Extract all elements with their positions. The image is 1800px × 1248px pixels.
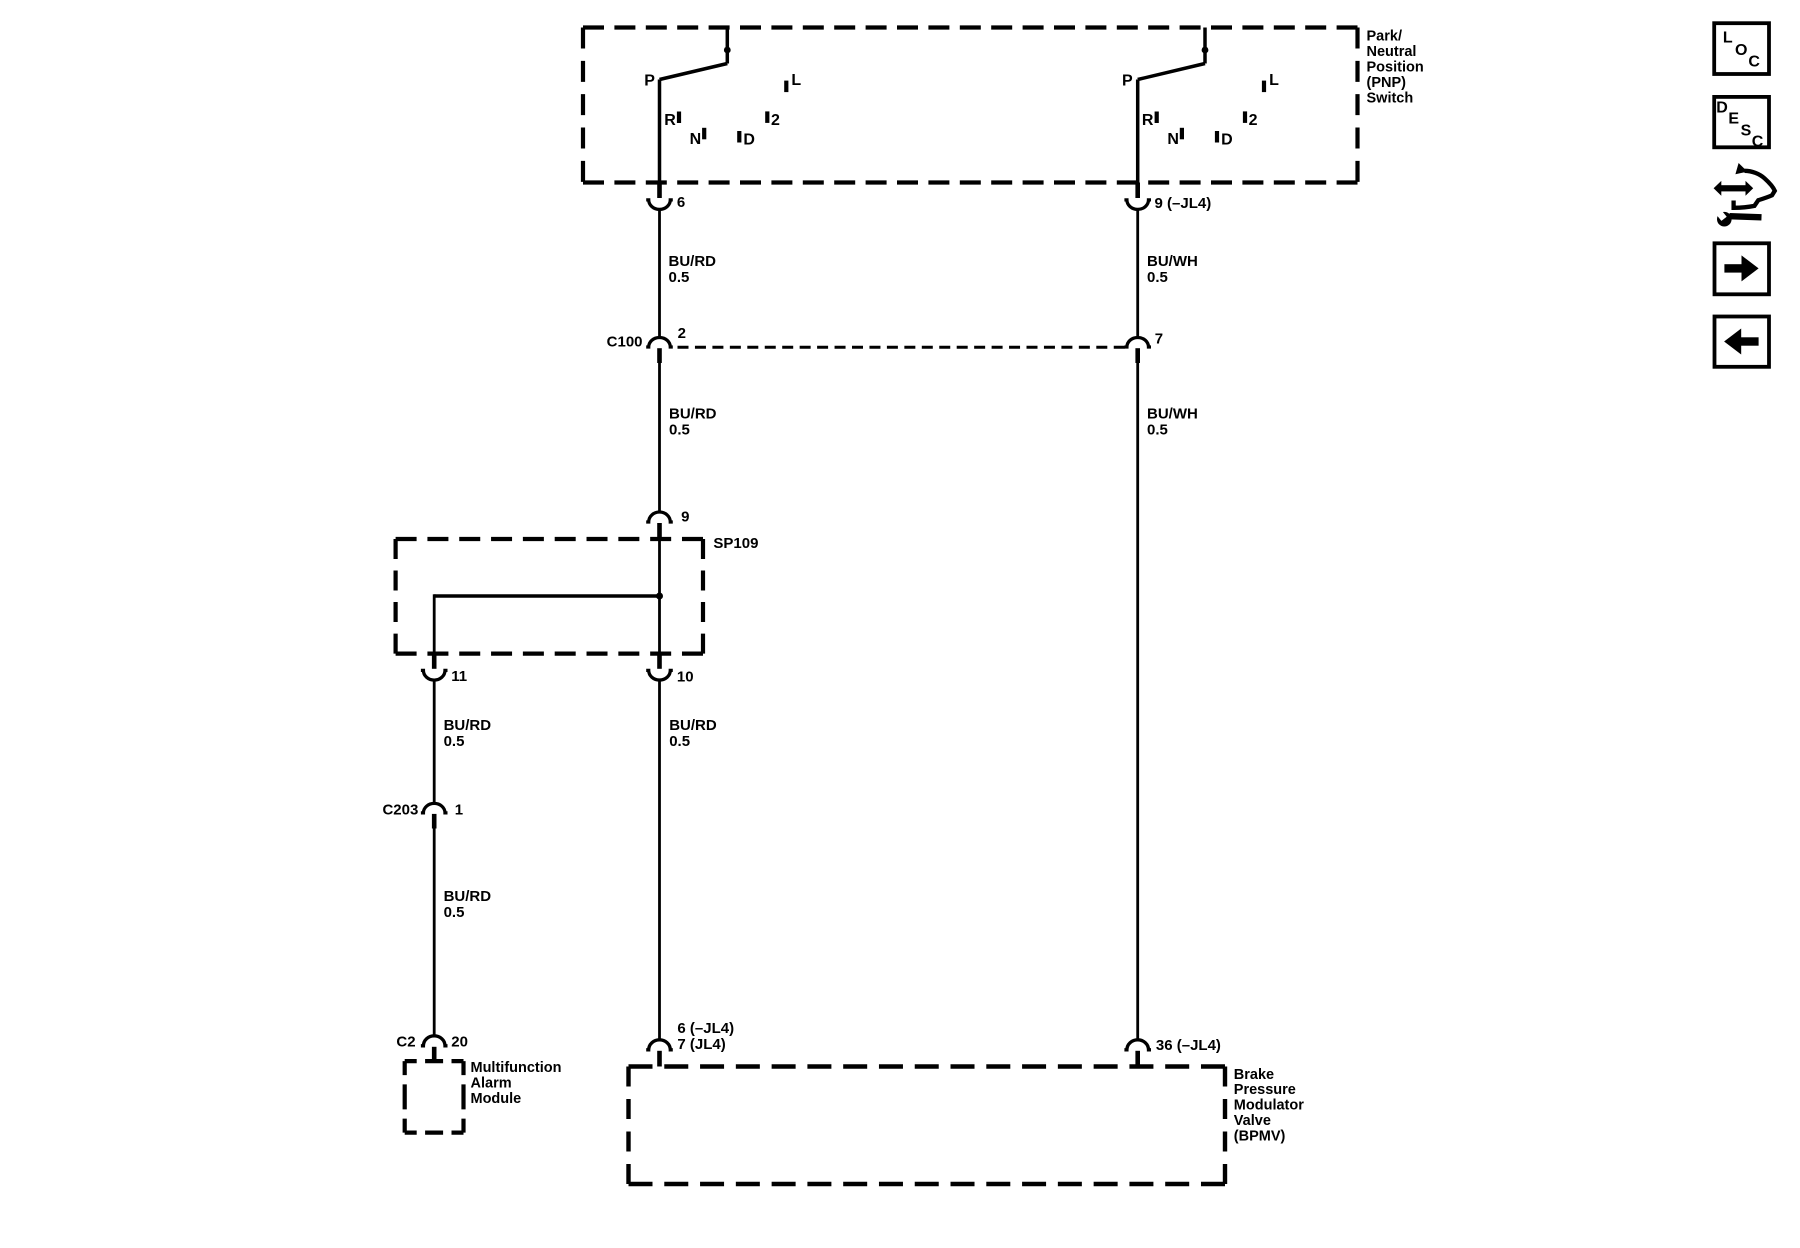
svg-text:0.5: 0.5 xyxy=(669,733,690,750)
switch S1 position labels P R N D 2 L xyxy=(644,72,801,148)
service info icon: wrench xyxy=(1712,205,1762,227)
svg-text:2: 2 xyxy=(678,325,686,342)
switch S1 contact ticks xyxy=(677,81,789,143)
wire label BU/RD 0.5 xyxy=(669,717,717,750)
svg-text:S: S xyxy=(1741,123,1752,140)
connector C203 pin xyxy=(432,814,437,829)
wire pin 10 to BPMV BU/RD xyxy=(658,680,661,1041)
switch S2 P-contact wire xyxy=(1136,80,1140,183)
svg-text:(BPMV): (BPMV) xyxy=(1234,1128,1286,1144)
switch S1 wiper arm xyxy=(660,64,728,80)
svg-text:C100: C100 xyxy=(607,334,643,351)
svg-text:L: L xyxy=(791,72,801,89)
svg-text:Position: Position xyxy=(1367,60,1424,76)
svg-text:Brake: Brake xyxy=(1234,1067,1274,1083)
connector C100 pin xyxy=(657,348,662,363)
service info icon: double arrow xyxy=(1714,181,1754,196)
svg-text:Modulator: Modulator xyxy=(1234,1098,1304,1114)
svg-text:L: L xyxy=(1723,29,1733,46)
switch S2 wiper arm xyxy=(1138,64,1205,80)
svg-text:BU/WH: BU/WH xyxy=(1147,253,1198,270)
Brake Pressure Modulator Valve (BPMV) box xyxy=(629,1067,1226,1185)
service info icon: curved band outline xyxy=(1734,171,1775,208)
wire pin 11 to C203 BU/RD xyxy=(433,680,436,804)
BPMV pin 36 pin xyxy=(1135,1051,1140,1067)
wire label BU/WH 0.5 xyxy=(1147,406,1198,439)
svg-text:0.5: 0.5 xyxy=(444,904,465,921)
wire label BU/WH 0.5 xyxy=(1147,253,1198,286)
PNP pin 6 connector cup xyxy=(646,200,673,209)
svg-text:R: R xyxy=(1142,112,1154,129)
svg-text:C203: C203 xyxy=(382,802,418,819)
switch S2 common feed wire xyxy=(1203,28,1207,64)
svg-text:Valve: Valve xyxy=(1234,1113,1271,1129)
DESC icon box xyxy=(1714,97,1769,147)
svg-text:36 (–JL4): 36 (–JL4) xyxy=(1156,1037,1221,1054)
svg-text:0.5: 0.5 xyxy=(669,422,690,439)
forward arrow xyxy=(1724,255,1758,281)
svg-text:10: 10 xyxy=(677,669,694,686)
SP109 pin 11 connector cup xyxy=(421,670,448,680)
SP109 horizontal branch wire xyxy=(434,594,659,597)
svg-text:BU/RD: BU/RD xyxy=(669,406,717,423)
SP109 pin 10 connector cup xyxy=(646,670,673,680)
LOC icon letters xyxy=(1723,29,1761,70)
back arrow xyxy=(1724,329,1759,355)
Multifunction Alarm Module box xyxy=(405,1061,464,1133)
svg-text:C: C xyxy=(1748,53,1760,70)
Multifunction Alarm Module name xyxy=(471,1060,562,1107)
svg-text:6: 6 xyxy=(677,194,685,211)
C100 connector boundary dashed line xyxy=(678,346,1125,349)
svg-text:0.5: 0.5 xyxy=(444,733,465,750)
svg-text:0.5: 0.5 xyxy=(669,269,690,286)
connector C100 dome xyxy=(646,338,673,347)
splice SP109 box xyxy=(396,539,703,654)
SP109 pin 9 dome xyxy=(646,512,673,522)
DESC icon letters xyxy=(1716,99,1764,150)
connector C100 pin 7 dome xyxy=(1124,338,1151,347)
svg-text:R: R xyxy=(664,112,676,129)
service info icon: band arrowhead xyxy=(1735,163,1747,174)
svg-text:O: O xyxy=(1735,42,1747,59)
svg-text:6 (–JL4): 6 (–JL4) xyxy=(677,1020,734,1037)
wire C100 to SP109 pin 9 BU/RD xyxy=(658,363,661,512)
LOC icon box xyxy=(1714,23,1769,74)
wire label BU/RD 0.5 xyxy=(669,253,717,286)
svg-text:0.5: 0.5 xyxy=(1147,422,1168,439)
PNP pin 9 terminal pin xyxy=(1135,183,1140,199)
wire label BU/RD 0.5 xyxy=(444,888,492,921)
svg-text:D: D xyxy=(1716,99,1728,116)
svg-text:BU/RD: BU/RD xyxy=(444,888,492,905)
switch S2 position labels P R N D 2 L xyxy=(1122,72,1279,148)
svg-text:2: 2 xyxy=(1249,112,1258,129)
svg-text:Pressure: Pressure xyxy=(1234,1082,1296,1098)
svg-text:Park/: Park/ xyxy=(1367,29,1402,45)
forward arrow icon box xyxy=(1715,243,1770,294)
svg-text:9 (–JL4): 9 (–JL4) xyxy=(1155,195,1212,212)
wire C203 to C2 BU/RD xyxy=(433,829,436,1036)
SP109 pin 9 pin xyxy=(657,523,662,539)
connector C203 dome xyxy=(421,803,448,813)
PNP pin 9 connector cup xyxy=(1124,200,1151,210)
BPMV pin 36 dome xyxy=(1124,1040,1151,1050)
svg-text:BU/RD: BU/RD xyxy=(669,717,717,734)
svg-text:BU/RD: BU/RD xyxy=(669,253,717,270)
svg-text:N: N xyxy=(690,131,702,148)
svg-text:20: 20 xyxy=(451,1033,468,1050)
BPMV pin 6/7 pin xyxy=(657,1051,662,1067)
svg-text:SP109: SP109 xyxy=(713,535,758,552)
svg-text:Module: Module xyxy=(471,1091,522,1107)
SP109 pin 10 pin xyxy=(657,654,662,669)
svg-text:L: L xyxy=(1269,72,1279,89)
wire inside SP109 vertical xyxy=(658,539,661,654)
svg-text:C2: C2 xyxy=(396,1033,415,1050)
connector C2 pin xyxy=(432,1047,437,1061)
svg-text:D: D xyxy=(743,132,755,149)
svg-text:BU/RD: BU/RD xyxy=(444,717,492,734)
svg-text:Alarm: Alarm xyxy=(471,1075,512,1091)
svg-text:1: 1 xyxy=(455,802,463,819)
svg-text:2: 2 xyxy=(771,112,780,129)
svg-text:9: 9 xyxy=(681,509,689,526)
svg-text:Switch: Switch xyxy=(1367,91,1414,107)
svg-text:7 (JL4): 7 (JL4) xyxy=(677,1036,725,1053)
PNP switch component name label xyxy=(1367,29,1424,107)
switch S2 contact ticks xyxy=(1155,81,1267,143)
svg-text:BU/WH: BU/WH xyxy=(1147,406,1198,423)
svg-text:N: N xyxy=(1167,131,1179,148)
Park/Neutral Position (PNP) Switch box xyxy=(583,28,1358,183)
PNP pin 6 terminal pin xyxy=(657,183,662,199)
connector C100 pin 7 pin xyxy=(1135,348,1140,363)
switch S2 junction dot xyxy=(1202,47,1209,54)
wire pin9 to C100 pin7 BU/WH xyxy=(1136,209,1139,337)
svg-text:(PNP): (PNP) xyxy=(1367,75,1407,91)
svg-text:7: 7 xyxy=(1155,331,1163,348)
connector C2 dome xyxy=(421,1036,448,1046)
BPMV component name xyxy=(1234,1067,1304,1145)
svg-text:C: C xyxy=(1752,134,1764,151)
wire pin7 to BPMV pin36 BU/WH xyxy=(1136,363,1139,1041)
svg-text:P: P xyxy=(1122,73,1133,90)
svg-text:11: 11 xyxy=(451,668,467,685)
back arrow icon box xyxy=(1715,317,1770,367)
svg-text:D: D xyxy=(1221,132,1233,149)
SP109 pin 11 pin xyxy=(432,654,437,669)
svg-text:E: E xyxy=(1728,110,1739,127)
svg-text:Multifunction: Multifunction xyxy=(471,1060,562,1076)
switch S1 P-contact wire xyxy=(658,80,662,183)
svg-text:P: P xyxy=(644,73,655,90)
svg-text:0.5: 0.5 xyxy=(1147,269,1168,286)
switch S1 junction dot xyxy=(724,47,731,54)
SP109 junction dot xyxy=(656,593,663,600)
svg-text:Neutral: Neutral xyxy=(1367,44,1417,60)
wire label BU/RD 0.5 xyxy=(669,406,717,439)
wire pin6 to C100 BU/RD xyxy=(658,209,661,337)
switch S1 common feed wire xyxy=(726,28,730,64)
wire label BU/RD 0.5 xyxy=(444,717,492,750)
SP109 left branch wire down xyxy=(433,594,436,653)
BPMV pin 6/7 dome xyxy=(646,1040,673,1050)
